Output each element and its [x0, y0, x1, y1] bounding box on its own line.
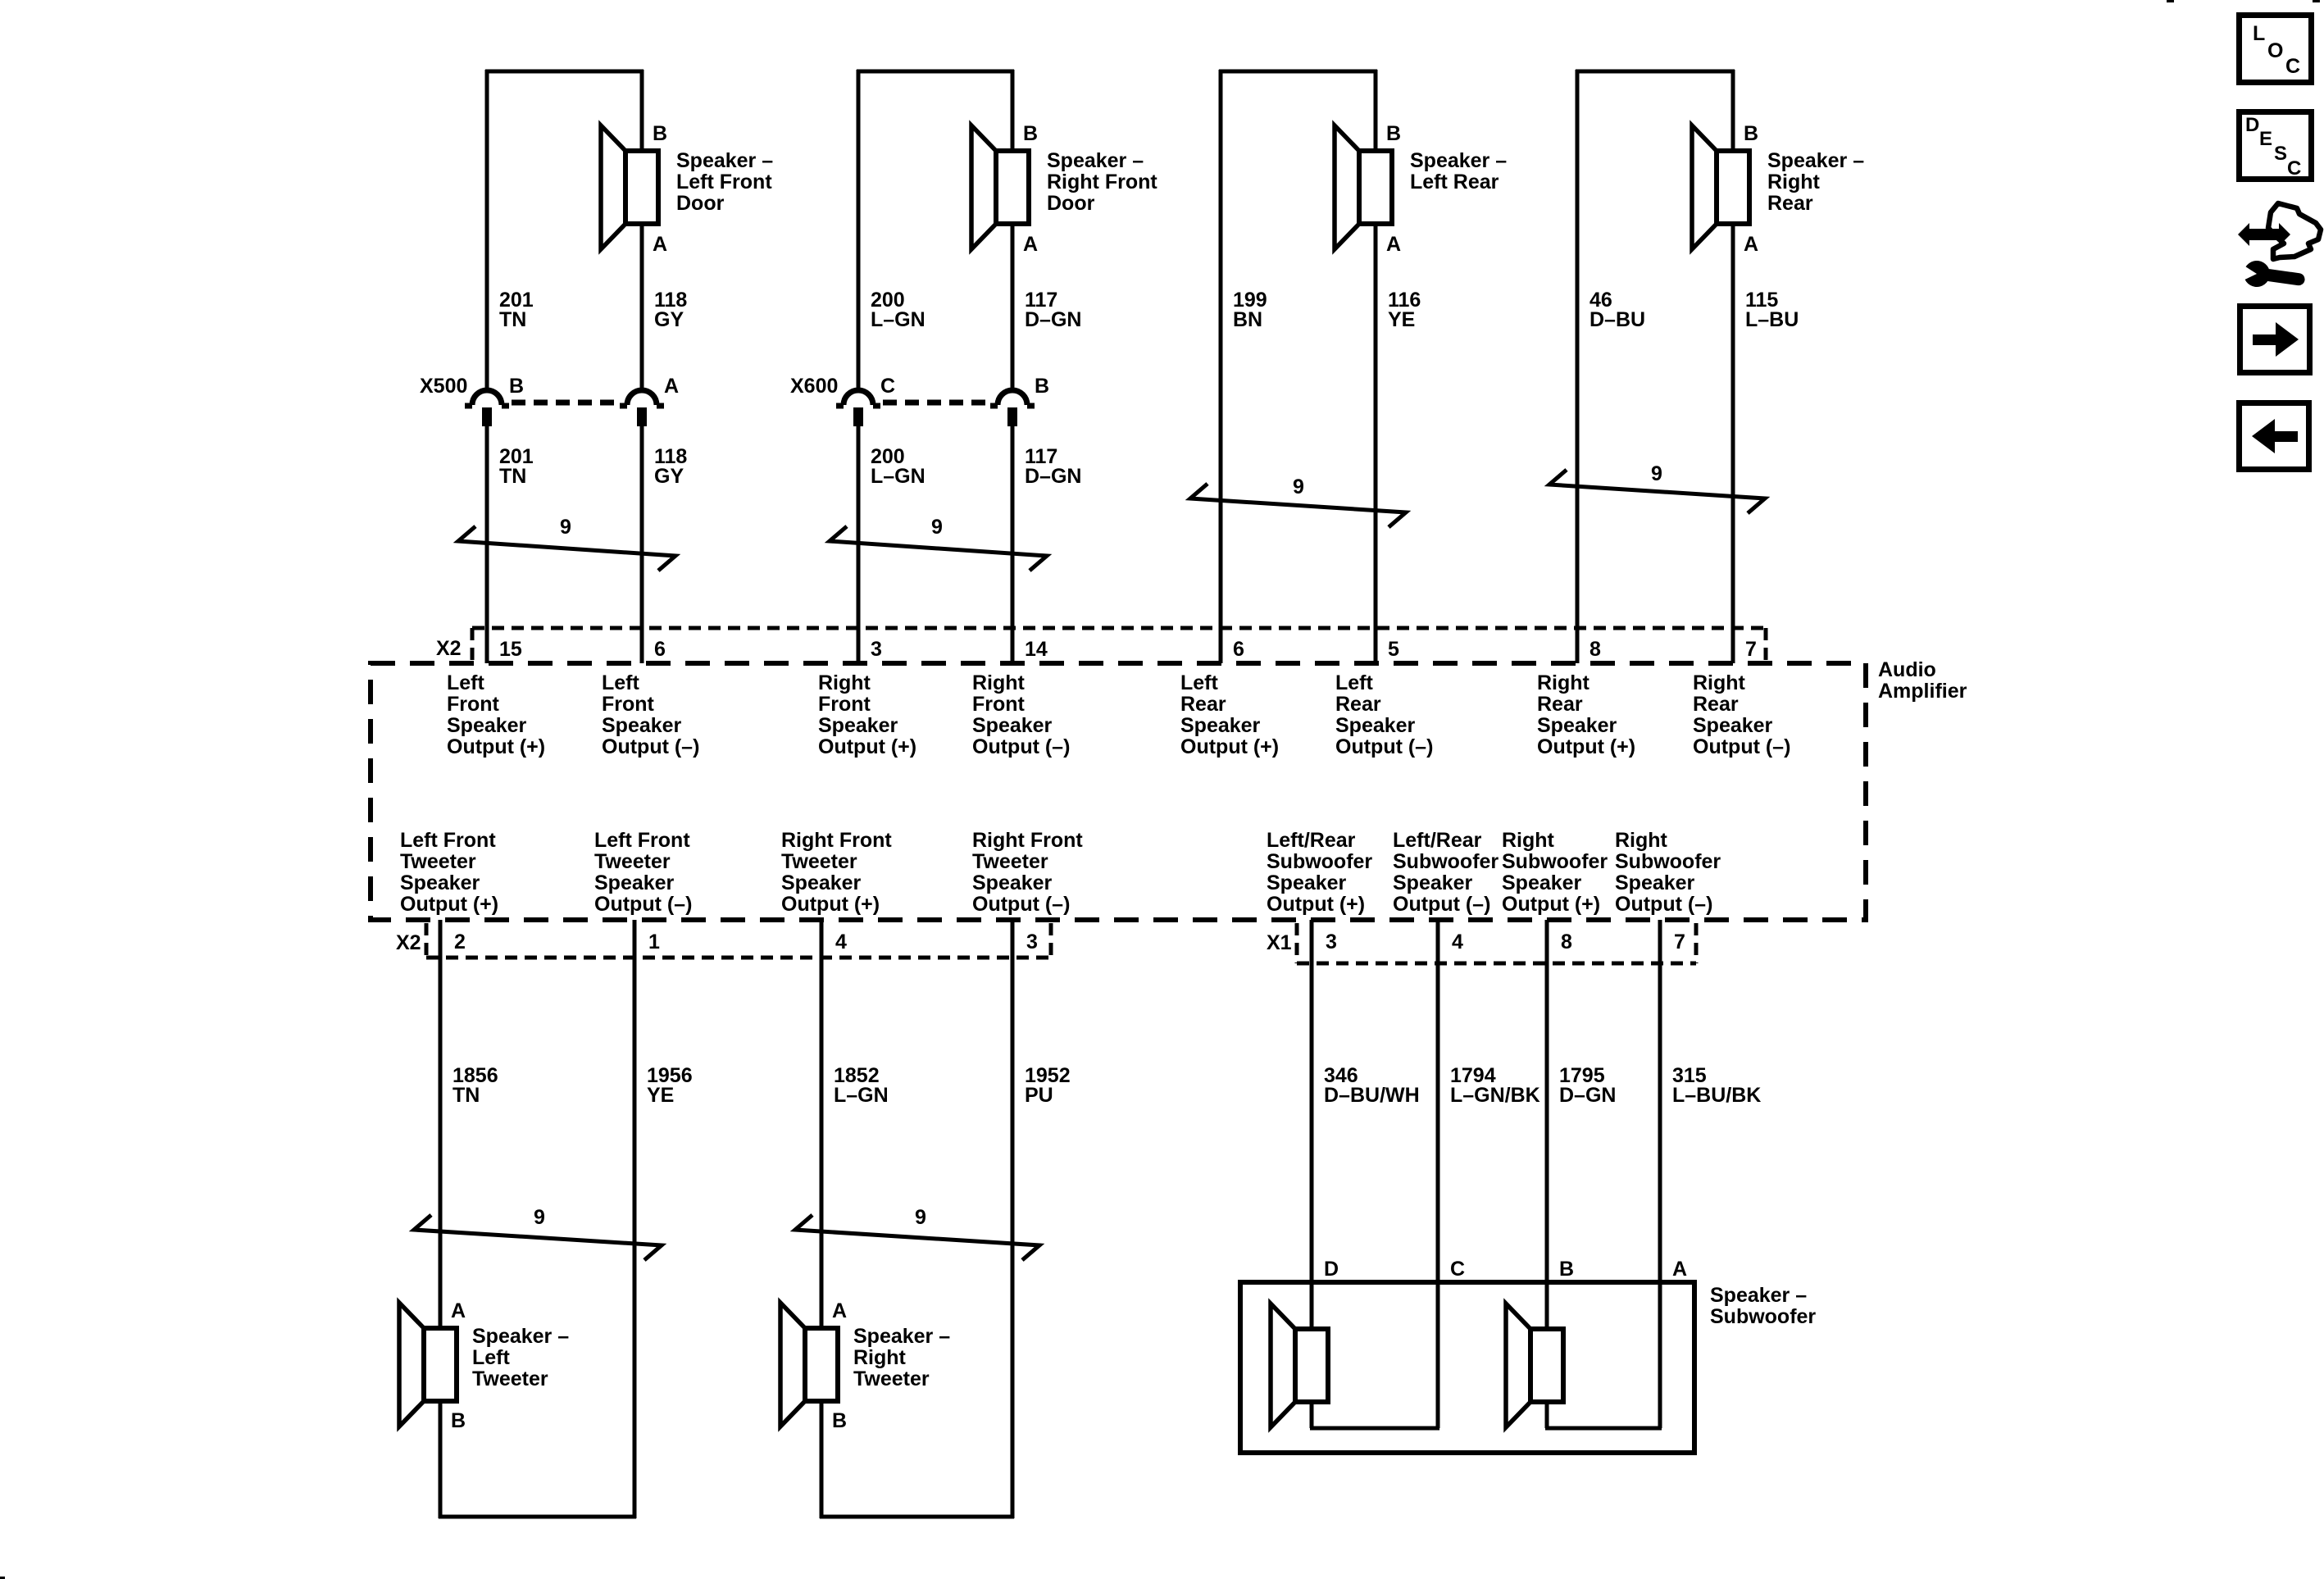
amp output label bottom 8 — [1615, 829, 1721, 916]
svg-text:Output (–): Output (–) — [1693, 735, 1790, 758]
wire below speaker LR — [1374, 224, 1378, 663]
svg-text:Output (–): Output (–) — [1335, 735, 1433, 758]
wire segment below connector 3 — [1011, 426, 1015, 663]
svg-text:Left: Left — [1180, 671, 1219, 694]
svg-text:Speaker: Speaker — [818, 714, 898, 737]
svg-text:Speaker: Speaker — [447, 714, 527, 737]
speaker subwoofer box — [1240, 1282, 1694, 1453]
svg-text:Left: Left — [472, 1346, 511, 1369]
wire 199 BN label upper — [1233, 289, 1267, 331]
svg-text:Speaker: Speaker — [1267, 871, 1347, 894]
svg-text:A: A — [664, 375, 679, 398]
svg-text:L–GN/BK: L–GN/BK — [1450, 1084, 1540, 1107]
wire 1794 L–GN/BK label — [1450, 1064, 1540, 1107]
svg-text:X500: X500 — [420, 375, 467, 398]
svg-text:C: C — [1450, 1258, 1465, 1281]
wire below speaker LF door — [640, 224, 644, 388]
wire 116 YE label upper — [1388, 289, 1421, 331]
svg-text:Output (+): Output (+) — [818, 735, 916, 758]
wire 1795 D–GN label — [1559, 1064, 1616, 1107]
svg-text:TN: TN — [499, 308, 526, 331]
svg-text:3: 3 — [871, 638, 882, 661]
wire 201 TN label upper — [499, 289, 534, 331]
svg-text:8: 8 — [1561, 931, 1572, 953]
amp output label bottom 2 — [594, 829, 692, 916]
svg-text:Speaker: Speaker — [1393, 871, 1473, 894]
svg-text:Speaker: Speaker — [400, 871, 480, 894]
svg-text:Door: Door — [676, 192, 725, 215]
label speaker subwoofer — [1710, 1284, 1816, 1328]
svg-text:2: 2 — [454, 931, 466, 953]
svg-text:Speaker –: Speaker – — [676, 149, 773, 172]
svg-text:GY: GY — [654, 465, 684, 488]
twisted pair symbol 2 — [830, 516, 1047, 571]
label speaker LR — [1410, 149, 1507, 193]
twisted pair symbol 3 — [1190, 476, 1406, 527]
svg-text:E: E — [2259, 128, 2272, 150]
connector X500 — [465, 390, 664, 426]
svg-text:O: O — [2267, 39, 2283, 62]
svg-text:7: 7 — [1745, 638, 1757, 661]
svg-text:L–GN: L–GN — [834, 1084, 889, 1107]
wire loop top speaker RF door — [857, 70, 1014, 388]
svg-text:C: C — [2285, 55, 2300, 78]
svg-text:B: B — [1023, 122, 1038, 145]
svg-text:Left/Rear: Left/Rear — [1393, 829, 1482, 852]
svg-text:Amplifier: Amplifier — [1878, 680, 1967, 703]
svg-text:Rear: Rear — [1335, 693, 1381, 716]
amp output label top 8 — [1693, 671, 1790, 758]
wire bottom 8 — [1658, 920, 1662, 1428]
svg-text:GY: GY — [654, 308, 684, 331]
svg-text:D–BU/WH: D–BU/WH — [1324, 1084, 1420, 1107]
svg-text:Tweeter: Tweeter — [594, 850, 671, 873]
svg-text:Output (–): Output (–) — [594, 893, 692, 916]
svg-text:Rear: Rear — [1693, 693, 1739, 716]
amp output label top 7 — [1537, 671, 1635, 758]
icon wrench — [2235, 258, 2307, 294]
twisted pair symbol tweeter 1 — [414, 1206, 662, 1260]
svg-text:D–GN: D–GN — [1025, 308, 1081, 331]
wire 1956 YE label — [647, 1064, 693, 1107]
svg-text:X2: X2 — [396, 931, 421, 954]
twisted pair symbol tweeter 2 — [795, 1206, 1039, 1260]
svg-text:D: D — [1324, 1258, 1339, 1281]
svg-text:Output (–): Output (–) — [1615, 893, 1712, 916]
svg-text:Subwoofer: Subwoofer — [1393, 850, 1499, 873]
svg-text:TN: TN — [453, 1084, 480, 1107]
svg-text:S: S — [2274, 143, 2287, 165]
wire 117 D–GN label upper — [1025, 289, 1081, 331]
svg-text:A: A — [1386, 233, 1401, 256]
audio amplifier U1 box — [371, 663, 1866, 920]
connector X1 strip — [1297, 923, 1696, 963]
wire segment below connector 2 — [857, 426, 861, 663]
svg-text:Left: Left — [1335, 671, 1374, 694]
label speaker LF door — [676, 149, 773, 215]
amp output label top 6 — [1335, 671, 1433, 758]
svg-text:Speaker: Speaker — [1335, 714, 1416, 737]
wire loop top speaker RR — [1576, 70, 1735, 663]
svg-text:Right Front: Right Front — [972, 829, 1083, 852]
svg-text:Output (+): Output (+) — [781, 893, 880, 916]
wire 115 L–BU label upper — [1745, 289, 1799, 331]
svg-text:B: B — [1559, 1258, 1574, 1281]
svg-text:9: 9 — [1293, 476, 1304, 498]
svg-text:Speaker: Speaker — [972, 714, 1053, 737]
svg-text:8: 8 — [1590, 638, 1601, 661]
speaker LF door — [601, 125, 658, 249]
svg-text:D: D — [2245, 114, 2259, 136]
svg-text:4: 4 — [1452, 931, 1463, 953]
svg-text:14: 14 — [1025, 638, 1048, 661]
amp output label top 5 — [1180, 671, 1279, 758]
svg-text:Front: Front — [602, 693, 655, 716]
svg-text:Front: Front — [818, 693, 871, 716]
connector X600 — [836, 390, 1035, 426]
svg-text:PU: PU — [1025, 1084, 1053, 1107]
wire segment below connector 0 — [485, 426, 489, 663]
twisted pair symbol 1 — [458, 516, 675, 571]
svg-text:D–BU: D–BU — [1590, 308, 1645, 331]
svg-text:3: 3 — [1326, 931, 1337, 953]
svg-text:B: B — [1386, 122, 1401, 145]
svg-text:Front: Front — [447, 693, 500, 716]
svg-text:Output (–): Output (–) — [602, 735, 699, 758]
svg-text:Subwoofer: Subwoofer — [1267, 850, 1372, 873]
svg-text:B: B — [832, 1409, 847, 1432]
svg-text:X2: X2 — [436, 637, 462, 660]
svg-text:Output (+): Output (+) — [1180, 735, 1279, 758]
icon vehicle panel outline — [2268, 203, 2321, 259]
amp output label bottom 5 — [1267, 829, 1372, 916]
wire 117 D–GN label lower — [1025, 445, 1081, 488]
subwoofer driver 2 return wire — [1545, 1402, 1662, 1428]
wire bottom 2 — [633, 920, 637, 1517]
svg-text:Speaker: Speaker — [1180, 714, 1261, 737]
amp output label bottom 3 — [781, 829, 892, 916]
svg-text:Right: Right — [1615, 829, 1668, 852]
wire 1952 PU label — [1025, 1064, 1071, 1107]
amp output label top 3 — [818, 671, 916, 758]
icon double arrow — [2238, 223, 2290, 246]
page tick mark top 1 — [2167, 0, 2174, 2]
svg-text:Speaker: Speaker — [594, 871, 675, 894]
svg-text:Right Front: Right Front — [781, 829, 892, 852]
svg-text:3: 3 — [1026, 931, 1038, 953]
amp output label top 1 — [447, 671, 545, 758]
wire 46 D–BU label upper — [1590, 289, 1645, 331]
svg-text:Left/Rear: Left/Rear — [1267, 829, 1356, 852]
subwoofer driver 2 — [1506, 1304, 1563, 1427]
svg-text:Left Front: Left Front — [676, 171, 772, 193]
svg-text:Rear: Rear — [1537, 693, 1583, 716]
svg-text:6: 6 — [1233, 638, 1244, 661]
svg-text:BN: BN — [1233, 308, 1262, 331]
amp output label top 2 — [602, 671, 699, 758]
wire loop top speaker LR — [1219, 70, 1377, 663]
svg-text:9: 9 — [560, 516, 571, 539]
svg-text:Tweeter: Tweeter — [400, 850, 476, 873]
svg-text:C: C — [2287, 157, 2301, 180]
svg-text:YE: YE — [647, 1084, 674, 1107]
twisted pair symbol 4 — [1549, 462, 1765, 513]
svg-text:Left: Left — [447, 671, 485, 694]
svg-text:Speaker –: Speaker – — [1767, 149, 1864, 172]
svg-text:Right: Right — [818, 671, 871, 694]
wire 315 L–BU/BK label — [1672, 1064, 1761, 1107]
svg-text:4: 4 — [835, 931, 847, 953]
svg-text:Subwoofer: Subwoofer — [1615, 850, 1721, 873]
svg-text:B: B — [1035, 375, 1049, 398]
svg-text:L: L — [2253, 22, 2265, 45]
wire bottom 4 — [1011, 920, 1015, 1517]
wire loop top speaker LF door — [485, 70, 644, 388]
svg-text:Right: Right — [1537, 671, 1590, 694]
svg-text:Speaker: Speaker — [781, 871, 862, 894]
svg-text:D–GN: D–GN — [1559, 1084, 1616, 1107]
svg-text:X1: X1 — [1267, 931, 1292, 954]
svg-text:Right: Right — [853, 1346, 907, 1369]
svg-text:L–BU: L–BU — [1745, 308, 1799, 331]
svg-text:L–GN: L–GN — [871, 308, 926, 331]
icon arrow left box — [2240, 403, 2309, 470]
svg-text:Left Front: Left Front — [594, 829, 690, 852]
svg-text:9: 9 — [931, 516, 943, 539]
svg-text:15: 15 — [499, 638, 522, 661]
amp output label bottom 1 — [400, 829, 498, 916]
svg-text:A: A — [832, 1299, 847, 1322]
svg-text:Right: Right — [1502, 829, 1555, 852]
svg-text:Output (–): Output (–) — [972, 735, 1070, 758]
svg-text:Output (–): Output (–) — [972, 893, 1070, 916]
page tick mark top 2 — [2313, 0, 2320, 2]
label speaker right tweeter — [853, 1325, 950, 1390]
svg-text:Rear: Rear — [1180, 693, 1226, 716]
svg-text:Right: Right — [1767, 171, 1821, 193]
wire 118 GY label lower — [654, 445, 687, 488]
wire 118 GY label upper — [654, 289, 687, 331]
svg-text:Output (+): Output (+) — [1502, 893, 1600, 916]
svg-text:Right Front: Right Front — [1047, 171, 1157, 193]
amp output label top 4 — [972, 671, 1070, 758]
speaker RR — [1692, 125, 1749, 249]
svg-text:Speaker: Speaker — [972, 871, 1053, 894]
svg-text:B: B — [509, 375, 524, 398]
subwoofer driver 1 return wire — [1310, 1402, 1439, 1428]
svg-text:Output (+): Output (+) — [400, 893, 498, 916]
svg-text:Speaker –: Speaker – — [1410, 149, 1507, 172]
svg-text:9: 9 — [915, 1206, 926, 1229]
svg-text:Left: Left — [602, 671, 640, 694]
icon LOC box — [2240, 16, 2312, 83]
svg-text:Speaker: Speaker — [1615, 871, 1695, 894]
wire segment below connector 1 — [640, 426, 644, 663]
svg-text:A: A — [1672, 1258, 1687, 1281]
wire bottom 3 — [820, 920, 824, 1328]
svg-text:Speaker: Speaker — [602, 714, 682, 737]
svg-text:Right: Right — [972, 671, 1026, 694]
wire 200 L–GN label upper — [871, 289, 926, 331]
svg-text:L–GN: L–GN — [871, 465, 926, 488]
svg-text:B: B — [451, 1409, 466, 1432]
svg-text:X600: X600 — [790, 375, 838, 398]
svg-text:Speaker –: Speaker – — [853, 1325, 950, 1348]
wire loop bottom speaker left tweeter — [439, 920, 636, 1518]
svg-text:Door: Door — [1047, 192, 1095, 215]
svg-text:Rear: Rear — [1767, 192, 1813, 215]
svg-text:B: B — [653, 122, 667, 145]
svg-text:5: 5 — [1388, 638, 1399, 661]
svg-text:Output (+): Output (+) — [447, 735, 545, 758]
svg-text:9: 9 — [1651, 462, 1662, 485]
svg-text:D–GN: D–GN — [1025, 465, 1081, 488]
amp output label bottom 4 — [972, 829, 1083, 916]
svg-text:B: B — [1744, 122, 1758, 145]
svg-text:Audio: Audio — [1878, 658, 1936, 681]
svg-text:1: 1 — [648, 931, 660, 953]
wire bottom 5 — [1310, 920, 1314, 1329]
label Audio Amplifier — [1878, 658, 1967, 703]
connector X2 top strip — [472, 628, 1766, 661]
svg-text:Output (–): Output (–) — [1393, 893, 1490, 916]
wire bottom 1 — [439, 920, 443, 1328]
svg-text:6: 6 — [654, 638, 666, 661]
amp output label bottom 6 — [1393, 829, 1499, 916]
label speaker RR — [1767, 149, 1864, 215]
svg-text:Right: Right — [1693, 671, 1746, 694]
svg-text:Tweeter: Tweeter — [972, 850, 1048, 873]
wire bottom 6 — [1436, 920, 1440, 1428]
speaker LR — [1335, 125, 1392, 249]
wire below speaker RR — [1731, 224, 1735, 663]
wire 201 TN label lower — [499, 445, 534, 488]
amp output label bottom 7 — [1502, 829, 1608, 916]
icon DESC box — [2240, 112, 2312, 180]
svg-text:Subwoofer: Subwoofer — [1502, 850, 1608, 873]
icon arrow right box — [2240, 307, 2310, 373]
svg-text:Speaker: Speaker — [1693, 714, 1773, 737]
wire 346 D–BU/WH label — [1324, 1064, 1420, 1107]
connector X2 bottom strip — [426, 923, 1051, 958]
svg-text:Tweeter: Tweeter — [472, 1367, 548, 1390]
svg-text:7: 7 — [1674, 931, 1685, 953]
svg-text:TN: TN — [499, 465, 526, 488]
svg-text:A: A — [653, 233, 667, 256]
svg-text:Tweeter: Tweeter — [781, 850, 857, 873]
svg-text:9: 9 — [534, 1206, 545, 1229]
svg-text:Speaker –: Speaker – — [1710, 1284, 1807, 1307]
svg-text:Speaker –: Speaker – — [1047, 149, 1144, 172]
wire loop bottom speaker right tweeter — [820, 920, 1014, 1518]
svg-text:Subwoofer: Subwoofer — [1710, 1305, 1816, 1328]
svg-text:Left Rear: Left Rear — [1410, 171, 1499, 193]
svg-text:C: C — [880, 375, 895, 398]
svg-text:Front: Front — [972, 693, 1026, 716]
svg-text:Speaker: Speaker — [1502, 871, 1582, 894]
page tick mark bottom left — [0, 1577, 5, 1579]
wire below speaker RF door — [1011, 224, 1015, 388]
wire 1852 L–GN label — [834, 1064, 889, 1107]
svg-text:Output (+): Output (+) — [1267, 893, 1365, 916]
svg-text:L–BU/BK: L–BU/BK — [1672, 1084, 1761, 1107]
svg-text:A: A — [1023, 233, 1038, 256]
label speaker left tweeter — [472, 1325, 569, 1390]
subwoofer driver 1 — [1271, 1304, 1328, 1427]
wire 200 L–GN label lower — [871, 445, 926, 488]
wire bottom 7 — [1545, 920, 1549, 1329]
svg-text:Output (+): Output (+) — [1537, 735, 1635, 758]
label speaker RF door — [1047, 149, 1157, 215]
wire 1856 TN label — [453, 1064, 498, 1107]
svg-text:YE: YE — [1388, 308, 1415, 331]
svg-text:Speaker: Speaker — [1537, 714, 1617, 737]
speaker left tweeter — [399, 1303, 457, 1427]
svg-text:Left Front: Left Front — [400, 829, 496, 852]
speaker right tweeter — [780, 1303, 838, 1427]
svg-text:Tweeter: Tweeter — [853, 1367, 930, 1390]
svg-text:Speaker –: Speaker – — [472, 1325, 569, 1348]
svg-text:A: A — [451, 1299, 466, 1322]
svg-text:A: A — [1744, 233, 1758, 256]
speaker RF door — [971, 125, 1029, 249]
